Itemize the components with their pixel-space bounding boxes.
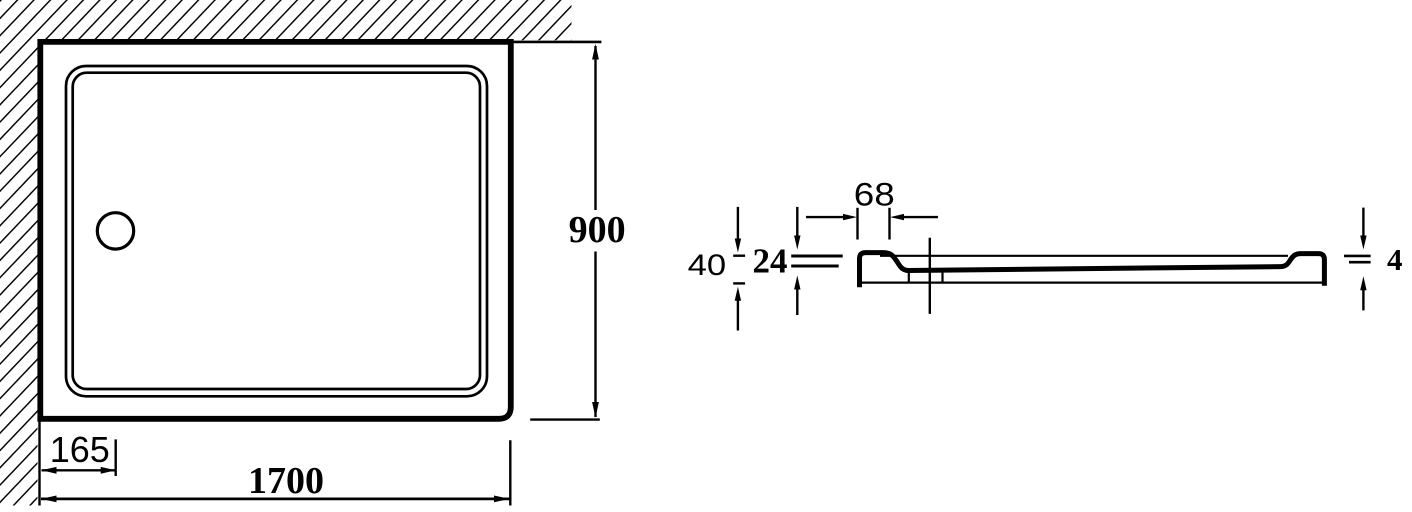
tray inner rim inner line (rounded rect) — [73, 73, 480, 389]
dimension 68: left arrow pointing right — [806, 216, 845, 218]
dimension 24: upper arrow pointing down — [796, 207, 798, 237]
svg-text:68: 68 — [854, 177, 895, 213]
dimension 68: right arrow pointing left — [902, 216, 938, 218]
tray inner rim outer line (rounded rect) — [66, 66, 487, 396]
dimension 4: lower arrow pointing up — [1362, 289, 1364, 310]
dimension 24: upper reference line — [791, 255, 843, 258]
dimension 4: lower reference line — [1349, 261, 1371, 264]
section rim top thin line — [880, 255, 1288, 257]
svg-text:4: 4 — [1387, 242, 1403, 277]
dimension 4: upper reference line — [1344, 255, 1371, 258]
wall face line top (extends right of tray, 900 extension line) — [38, 41, 602, 44]
section drain box right side — [941, 272, 943, 283]
section bottom thin line — [860, 282, 1323, 284]
dimension 40: upper arrow pointing down — [737, 207, 739, 240]
wall hatch (L-shaped region, top strip + left strip) — [0, 0, 572, 506]
svg-text:40: 40 — [688, 249, 727, 282]
dimension 165: dimension line with outward arrowheads — [42, 469, 116, 471]
dimension 165: right tick (drain centerline) — [114, 439, 116, 476]
dimension 24: lower reference line — [791, 265, 839, 268]
dimension 900: vertical line upper segment with up arrowhead — [594, 46, 596, 210]
dimension 68: right extension line — [888, 208, 890, 240]
dimension 40: lower tick — [733, 282, 745, 284]
dimension 40: upper tick — [733, 254, 745, 256]
drain circle — [97, 213, 133, 249]
dimension 40: lower arrow pointing up — [737, 300, 739, 331]
dimension 4: upper arrow pointing down — [1362, 208, 1364, 237]
dimension 900: vertical line lower segment with down arrowhead — [594, 252, 596, 418]
wall face line left (extends below tray, 1700 extension line) — [38, 40, 40, 506]
section profile: thick outline — [860, 253, 1325, 285]
svg-text:1700: 1700 — [248, 460, 324, 502]
tray outer edge (thick rectangle, rounded bottom-right corner) — [40, 42, 511, 419]
dimension 1700: dimension line with outward arrowheads — [41, 497, 510, 500]
svg-text:24: 24 — [753, 242, 788, 281]
section drain box left side — [908, 272, 910, 283]
dimension 1700: extension line right — [509, 440, 511, 505]
dimension 68: left extension line — [856, 208, 858, 240]
section drain centerline — [929, 238, 931, 314]
dimension 900: extension line bottom — [530, 418, 600, 420]
svg-text:165: 165 — [50, 429, 110, 470]
svg-text:900: 900 — [569, 209, 626, 251]
dimension 24: lower arrow pointing up — [796, 289, 798, 315]
